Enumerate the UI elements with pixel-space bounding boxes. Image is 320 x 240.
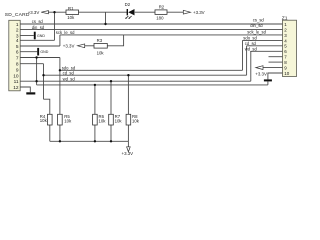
- wire sdo to Z1 pin4: [243, 39, 283, 41]
- junction pin7 switch: [35, 56, 37, 58]
- svg-text:4: 4: [16, 38, 19, 44]
- svg-text:10k: 10k: [99, 119, 107, 124]
- svg-text:10k: 10k: [97, 51, 105, 56]
- junction bottom R5: [59, 140, 61, 142]
- ground pin6: [37, 48, 49, 56]
- power port +3.3V top right: [183, 10, 204, 15]
- wire R2 to +3.3V: [167, 11, 183, 13]
- svg-text:8: 8: [16, 62, 19, 68]
- wire din_sd bus: [20, 29, 282, 31]
- wire bottom +3.3V bus: [50, 140, 129, 142]
- junction wd R7: [110, 80, 112, 82]
- junction cd pin8: [42, 74, 44, 76]
- resistor R5: [58, 114, 72, 125]
- wire R8 lower: [127, 125, 129, 141]
- junction common R6: [94, 84, 96, 86]
- wire R7 riser: [110, 81, 112, 114]
- svg-text:din_sd: din_sd: [32, 25, 45, 30]
- svg-text:180: 180: [156, 16, 164, 21]
- svg-text:10k: 10k: [67, 15, 75, 20]
- ground pin12: [26, 92, 35, 94]
- wire wd to Z1 pin6: [251, 50, 283, 52]
- wire D2 to R2: [135, 11, 155, 13]
- resistor R3: [94, 38, 107, 56]
- svg-text:+3.3V: +3.3V: [122, 151, 134, 156]
- svg-text:+3.3V: +3.3V: [63, 44, 75, 49]
- svg-text:11: 11: [14, 79, 19, 85]
- wire cd to Z1 pin5: [247, 45, 283, 47]
- wire pin7 switch riser: [36, 58, 38, 85]
- svg-text:2: 2: [16, 28, 19, 34]
- svg-text:cs_sd: cs_sd: [32, 19, 44, 24]
- junction cd R8: [127, 74, 129, 76]
- svg-text:GND: GND: [40, 50, 48, 54]
- wire cs pullup riser: [105, 12, 107, 24]
- svg-text:wd_sd: wd_sd: [245, 46, 258, 51]
- wire pin5 clk: [20, 45, 60, 47]
- svg-text:cd_sd: cd_sd: [63, 71, 75, 76]
- power port +3.3V mid (R3): [63, 44, 85, 49]
- wire pin7: [20, 57, 60, 59]
- svg-text:10: 10: [284, 71, 290, 76]
- wire R8 riser: [127, 75, 129, 114]
- resistor R1: [66, 6, 79, 20]
- wire Z1 pin9 stub: [263, 67, 283, 69]
- wire pin8: [20, 63, 43, 65]
- wire VDD riser: [54, 12, 56, 40]
- wire pin6 to GND: [20, 51, 37, 53]
- wire switch common bus: [37, 84, 268, 86]
- junction sdo R5: [59, 69, 61, 71]
- svg-text:R1: R1: [68, 6, 74, 11]
- wire R6 lower: [94, 125, 96, 141]
- wire cs_sd bus: [20, 23, 282, 25]
- wire +3.3V to R1: [48, 11, 66, 13]
- wire R4 lower: [49, 125, 51, 141]
- svg-text:R2: R2: [159, 4, 165, 9]
- wire wd_sd bus: [37, 80, 251, 82]
- wire R1 to D2: [79, 11, 128, 13]
- junction +3.3V R1: [53, 11, 55, 13]
- ground pin3: [34, 32, 46, 40]
- wire pin3 to GND: [20, 35, 34, 37]
- svg-text:sck_le_sd: sck_le_sd: [247, 29, 266, 34]
- wire sdo riser right: [242, 40, 244, 70]
- wire gnd bar to Z1 pin10: [268, 73, 283, 79]
- wire pin12 to GND: [20, 87, 30, 92]
- connector SD_CARD: [5, 12, 30, 91]
- svg-text:9: 9: [16, 68, 19, 74]
- svg-text:+3.3V: +3.3V: [193, 10, 205, 15]
- wire R6 riser: [94, 85, 96, 114]
- svg-text:D2: D2: [125, 2, 131, 7]
- junction cs pullup: [104, 23, 106, 25]
- wire pin8 riser down: [43, 64, 45, 99]
- svg-text:6: 6: [16, 50, 19, 56]
- junction bottom R6: [94, 140, 96, 142]
- wire cd riser right: [246, 46, 248, 75]
- svg-text:10k: 10k: [115, 119, 123, 124]
- wire common riser to gnd bar: [267, 81, 269, 85]
- wire wd riser right: [250, 51, 252, 81]
- svg-text:+3.3V: +3.3V: [28, 10, 40, 15]
- wire sdo_sd bus: [60, 69, 243, 71]
- svg-text:wd_sd: wd_sd: [63, 76, 76, 81]
- power port +3.3V Z1 pin9: [255, 66, 267, 77]
- svg-text:Z1: Z1: [282, 15, 288, 21]
- svg-text:10k: 10k: [40, 118, 48, 123]
- wire clk riser: [59, 35, 61, 46]
- svg-text:10: 10: [13, 74, 19, 80]
- svg-text:1: 1: [16, 22, 19, 28]
- svg-text:12: 12: [13, 85, 19, 91]
- wire pin7 riser to sdo and R5: [59, 58, 61, 115]
- wire pin4 VDD: [20, 39, 54, 41]
- svg-text:10k: 10k: [132, 119, 140, 124]
- wire +3.3V to R3: [85, 45, 94, 47]
- svg-text:5: 5: [16, 44, 19, 50]
- diode D2 LED: [125, 2, 135, 19]
- wire sck_le_sd bus: [60, 34, 283, 36]
- svg-text:R3: R3: [97, 38, 103, 43]
- wire R7 lower: [110, 125, 112, 141]
- wire Z1 pin7 stub: [269, 56, 283, 58]
- wire pin11: [20, 80, 36, 82]
- connector Z1: [282, 15, 297, 76]
- resistor R2: [155, 4, 167, 20]
- resistor R4: [40, 114, 52, 125]
- wire stub to bottom +3.3V arrow: [127, 141, 129, 147]
- junction bottom R7: [110, 140, 112, 142]
- svg-text:sdo_sd: sdo_sd: [243, 36, 257, 41]
- wire Z1 pin8 stub: [269, 61, 283, 63]
- svg-text:7: 7: [16, 55, 19, 61]
- wire cd_sd bus: [44, 74, 247, 76]
- svg-text:SD_CARD: SD_CARD: [5, 12, 30, 18]
- svg-text:cs_sd: cs_sd: [253, 18, 265, 23]
- svg-text:din_sd: din_sd: [250, 23, 263, 28]
- svg-text:10k: 10k: [64, 119, 72, 124]
- svg-text:GND: GND: [37, 34, 45, 38]
- junction wd pin11: [35, 80, 37, 82]
- wire to R4: [44, 99, 50, 114]
- resistor R6: [93, 114, 107, 125]
- power port +3.3V bottom: [122, 147, 134, 156]
- svg-text:+3.3V: +3.3V: [255, 71, 267, 76]
- wire R3 riser to sck: [107, 35, 123, 46]
- resistor R8: [126, 114, 140, 125]
- wire R5 lower: [59, 125, 61, 141]
- svg-text:cd_sd: cd_sd: [245, 41, 257, 46]
- power port +3.3V top left: [28, 10, 49, 15]
- svg-text:sck_le_sd: sck_le_sd: [56, 30, 75, 35]
- ground Z1 pin10: [264, 79, 272, 81]
- resistor R7: [109, 114, 123, 125]
